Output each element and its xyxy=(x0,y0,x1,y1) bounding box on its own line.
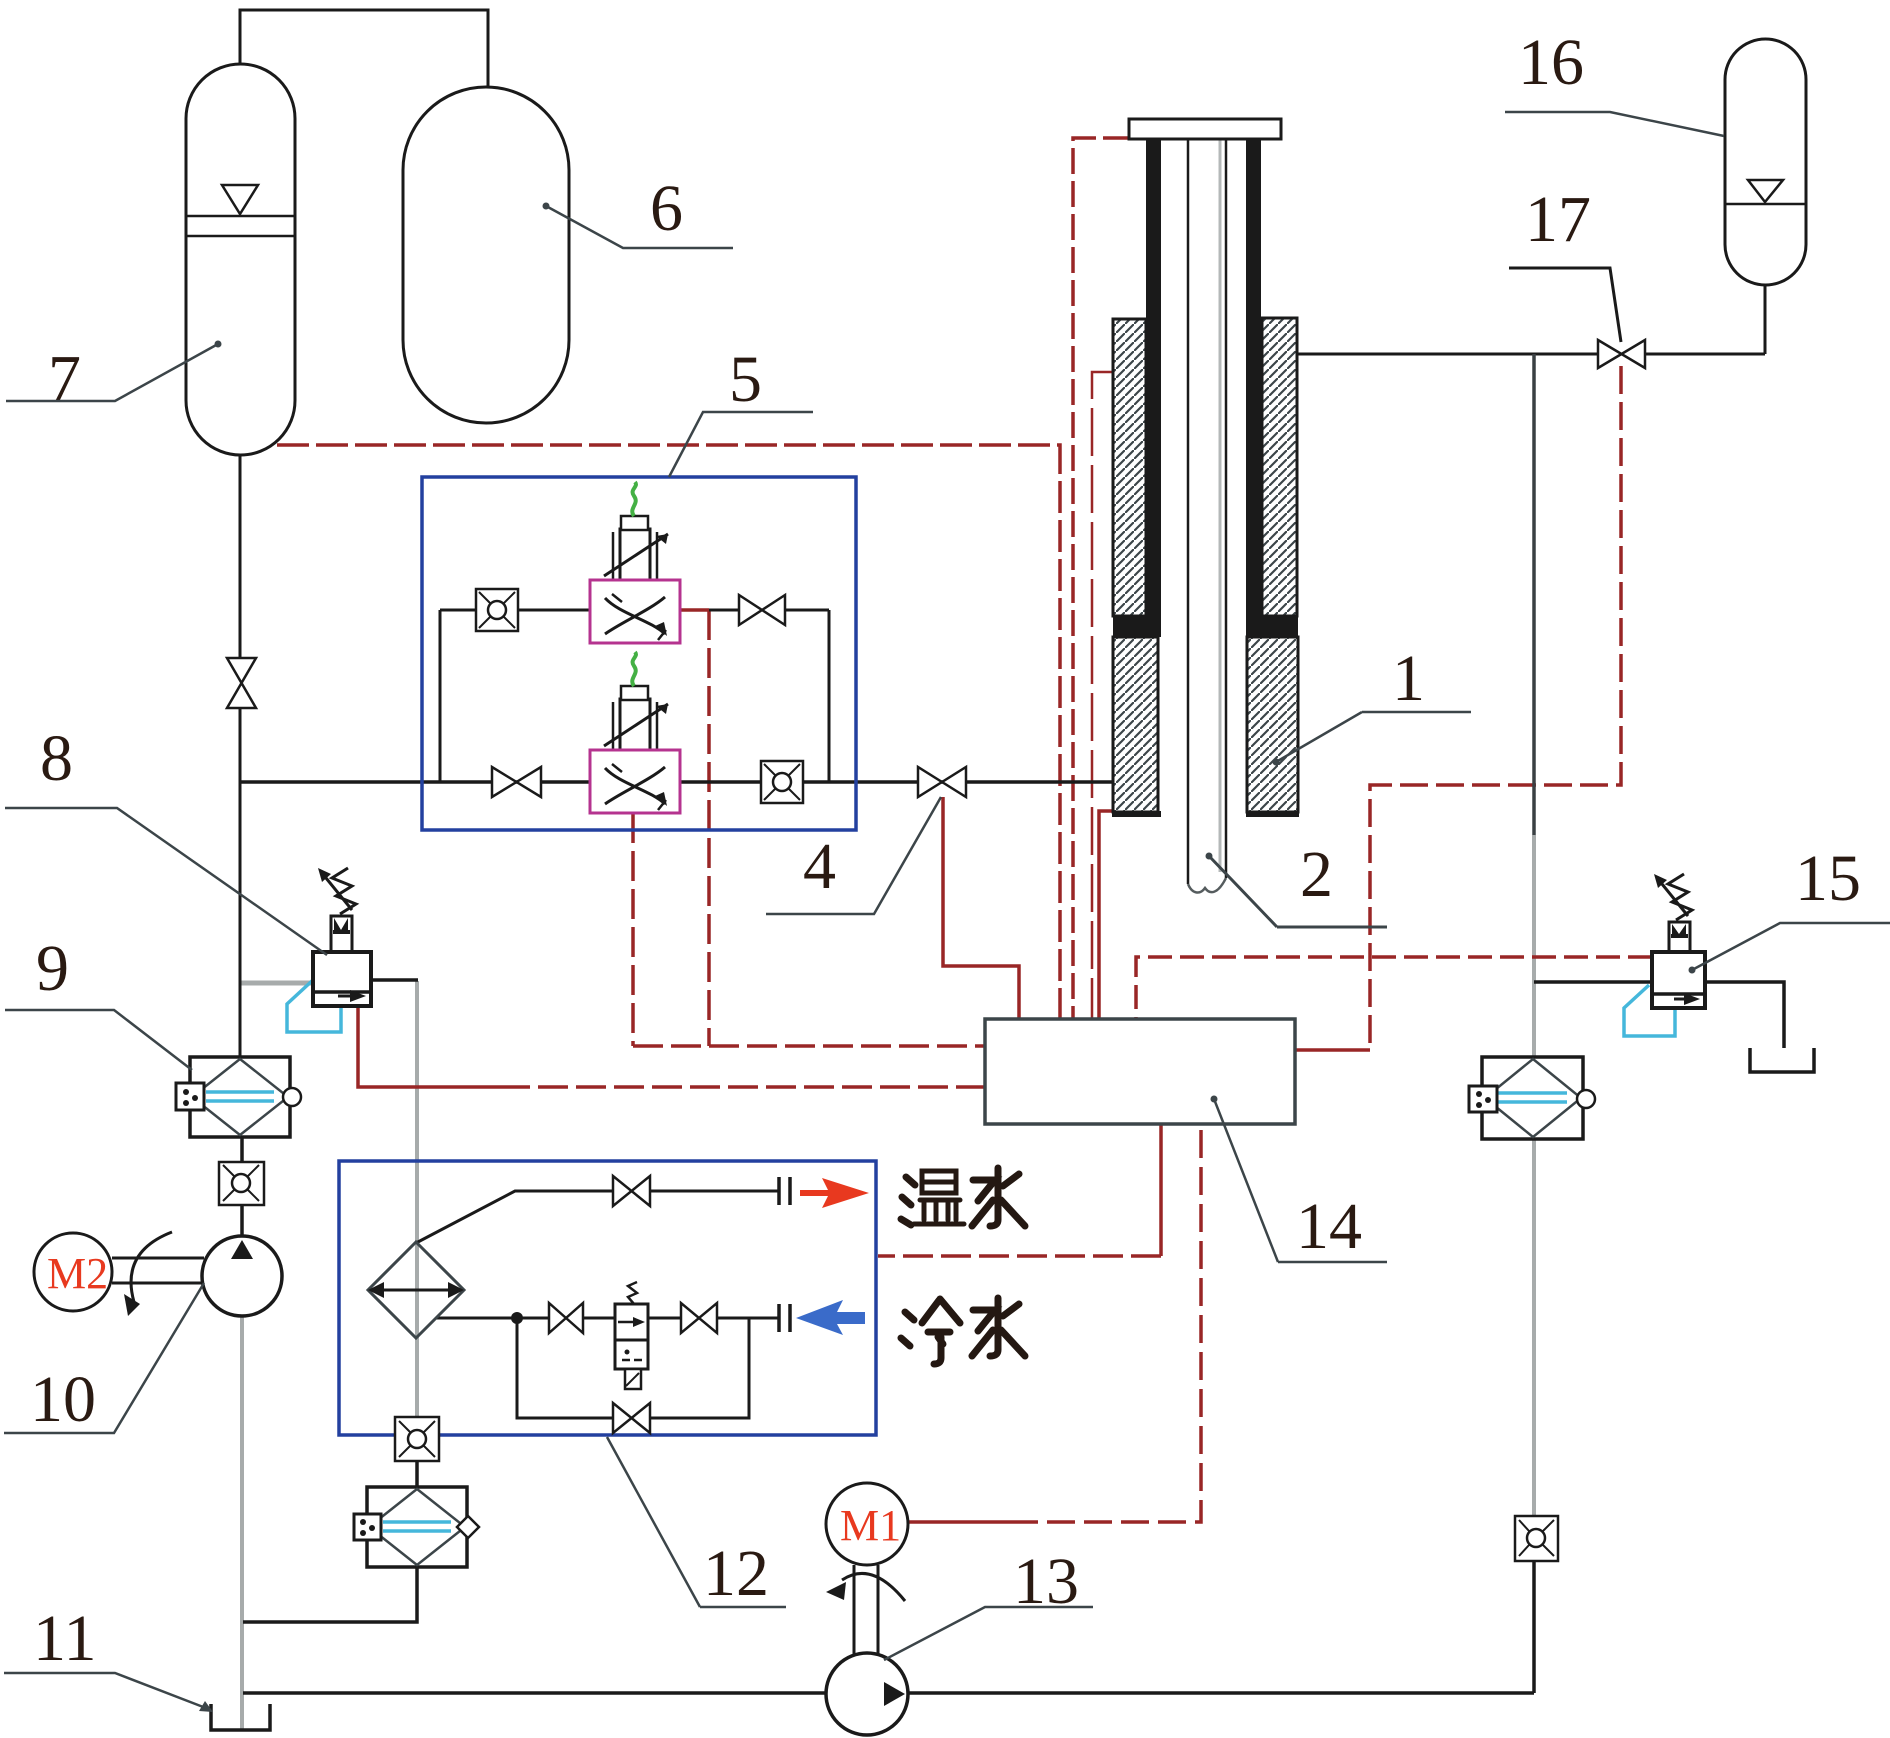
tank symbol right xyxy=(1750,1048,1814,1072)
label 10 xyxy=(4,1283,204,1436)
cylinder inner sleeve right xyxy=(1246,139,1261,618)
label 15 xyxy=(1689,842,1890,974)
wire temperature unit cold branch xyxy=(436,1317,779,1320)
label 13 xyxy=(884,1545,1093,1660)
accumulator 6 xyxy=(403,87,569,423)
wire label 17 leader xyxy=(1509,268,1621,342)
shutoff valve warm branch xyxy=(613,1176,650,1206)
cylinder lower wall right hatched xyxy=(1247,637,1298,812)
coupling warm water xyxy=(779,1177,790,1205)
wire shutoff valve 3 to main line xyxy=(239,708,242,782)
svg-text:12: 12 xyxy=(703,1537,769,1610)
check valve flow block bottom right xyxy=(761,761,803,803)
wire cylinder upper port to valve 17 and accumulator 16 xyxy=(1297,353,1765,356)
text cold water xyxy=(901,1298,1025,1364)
shutoff valve bypass xyxy=(613,1403,650,1433)
wire gray right return line xyxy=(1532,835,1536,1517)
label 1 xyxy=(1273,642,1472,766)
coupling cold water xyxy=(779,1304,790,1332)
rotation arrow M2 xyxy=(124,1232,172,1316)
filter 9 xyxy=(176,1057,301,1137)
wire gray rod centerline xyxy=(1219,139,1222,872)
cylinder bottom edge left xyxy=(1112,811,1161,817)
svg-text:5: 5 xyxy=(729,343,762,416)
motor M1 xyxy=(826,1483,908,1565)
shutoff valve below accumulator 7 xyxy=(227,658,256,708)
piston seal band right xyxy=(1246,616,1298,637)
svg-text:M1: M1 xyxy=(840,1501,901,1550)
check valve cooler chain xyxy=(395,1417,439,1461)
pilot line controller 14 to temperature unit 12 xyxy=(1159,1124,1163,1256)
check valve right return xyxy=(1515,1516,1558,1561)
cylinder bottom edge right xyxy=(1246,811,1299,817)
proportional flow valve B xyxy=(590,652,680,813)
label 2 xyxy=(1206,838,1388,927)
motor M2 xyxy=(34,1233,112,1311)
svg-text:11: 11 xyxy=(33,1602,97,1675)
accumulator 7 xyxy=(186,64,295,455)
piston rod 2 xyxy=(1188,139,1226,884)
wire cooler chain lower links xyxy=(243,1461,417,1622)
relief valve 15 xyxy=(1652,874,1705,1008)
wire flow block right riser xyxy=(828,610,831,782)
svg-text:15: 15 xyxy=(1795,842,1861,915)
frame temperature control unit 12 xyxy=(339,1161,876,1435)
wire main pressure line xyxy=(240,780,1112,784)
label 12 xyxy=(607,1437,786,1610)
wire left supply riser xyxy=(239,782,242,1057)
solenoid water valve xyxy=(615,1282,648,1389)
svg-text:8: 8 xyxy=(40,722,73,795)
svg-text:1: 1 xyxy=(1392,642,1425,715)
svg-text:6: 6 xyxy=(650,172,683,245)
svg-text:16: 16 xyxy=(1518,26,1584,99)
shutoff valve flow block lower left xyxy=(492,767,541,797)
cylinder inner sleeve left xyxy=(1146,139,1161,618)
label 16 xyxy=(1505,26,1724,136)
check valve above pump 10 xyxy=(219,1162,264,1205)
svg-text:7: 7 xyxy=(48,342,81,415)
pilot line cyan relief valve 15 xyxy=(1624,985,1675,1036)
proportional flow valve A xyxy=(590,482,680,643)
label 8 xyxy=(5,722,327,955)
cylinder 1 assembly xyxy=(1112,119,1299,893)
wire relief valve 8 outlet xyxy=(371,978,418,982)
wire gray pump10 suction to tank xyxy=(240,1316,244,1729)
check valve flow block top left xyxy=(476,589,518,631)
pilot line accumulator 7 to controller 14 xyxy=(277,445,1060,1019)
accumulator 16 xyxy=(1725,39,1806,285)
cylinder upper wall right hatched xyxy=(1262,318,1297,616)
pilot line to controller 14 left upper xyxy=(633,1044,985,1048)
arrow warm water out xyxy=(800,1178,869,1208)
svg-text:10: 10 xyxy=(30,1363,96,1436)
pilot line relief valve 8 to controller 14 xyxy=(358,1006,500,1087)
shutoff valve 4 xyxy=(918,767,966,797)
pilot line cyan relief valve 8 xyxy=(287,980,341,1032)
wire right riser top xyxy=(1532,354,1536,835)
cylinder lower wall left hatched xyxy=(1113,637,1158,812)
shutoff valve flow block top xyxy=(739,595,785,625)
shutoff valve cold branch left xyxy=(549,1303,583,1333)
svg-text:9: 9 xyxy=(36,932,69,1005)
pilot line valve 17 to controller 14 xyxy=(1370,366,1621,1050)
svg-text:2: 2 xyxy=(1300,838,1333,911)
wire accumulator 7 to accumulator 6 top link xyxy=(240,10,488,87)
wire right return to bottom line xyxy=(1532,1561,1536,1693)
wire temperature unit warm branch xyxy=(416,1191,779,1243)
svg-text:17: 17 xyxy=(1525,183,1591,256)
wire relief valve 15 outlet to tank xyxy=(1705,982,1784,1048)
wire temperature unit bypass xyxy=(517,1318,749,1418)
wire gray relief valve 8 drain down through cooler xyxy=(415,981,419,1417)
label 4 xyxy=(766,797,941,914)
svg-text:4: 4 xyxy=(803,830,836,903)
svg-text:14: 14 xyxy=(1296,1190,1362,1263)
svg-text:M2: M2 xyxy=(47,1249,108,1298)
label 7 xyxy=(6,341,222,416)
relief valve 8 xyxy=(313,868,371,1006)
wire flow block left branch riser xyxy=(439,610,442,782)
cylinder top cap xyxy=(1129,119,1281,139)
label 14 xyxy=(1211,1096,1388,1264)
pilot line cylinder upper port sensor to controller 14 xyxy=(1092,372,1113,1019)
label 5 xyxy=(669,343,813,477)
filter cooler chain xyxy=(354,1487,479,1567)
pilot line relief valve 15 to controller 14 xyxy=(1136,957,1652,1019)
text warm water xyxy=(901,1168,1025,1226)
wire filter 9 to check valve to pump 10 xyxy=(240,1137,244,1237)
filter right return xyxy=(1469,1057,1595,1139)
arrow cold water in xyxy=(796,1300,865,1335)
pilot line cylinder cap sensor to controller 14 xyxy=(1073,138,1129,1019)
wire bottom return line xyxy=(243,1691,1534,1695)
wire red cylinder bottom sensor to controller 14 xyxy=(1099,811,1112,1019)
pilot line proportional valve B to controller 14 xyxy=(631,813,635,1046)
frame flow control block 5 xyxy=(422,477,856,830)
pilot line proportional valve A to controller 14 xyxy=(680,608,709,612)
wire flow block top branch xyxy=(440,609,590,612)
heat exchanger xyxy=(368,1242,464,1338)
wire motor M1 shaft xyxy=(854,1565,878,1655)
label 11 xyxy=(4,1602,213,1712)
wire red valve 4 to controller 14 xyxy=(943,797,1019,1019)
cylinder upper wall left hatched xyxy=(1113,319,1146,616)
shutoff valve cold branch right xyxy=(681,1303,717,1333)
controller box 14 xyxy=(985,1019,1295,1124)
wire red motor M1 to controller 14 xyxy=(908,1520,1010,1524)
wire accumulator 7 outlet xyxy=(239,455,242,658)
piston seal band left xyxy=(1113,616,1161,637)
wire gray relief valve 8 inlet xyxy=(240,981,313,986)
shutoff valve 17 xyxy=(1598,340,1645,368)
pump 13 xyxy=(826,1653,908,1735)
rotation arrow M1 xyxy=(826,1573,905,1601)
label 6 xyxy=(543,172,734,248)
label 9 xyxy=(5,932,192,1070)
wire motor M2 shaft xyxy=(112,1258,204,1283)
wire relief valve 15 inlet xyxy=(1534,980,1652,984)
junction cold branch xyxy=(511,1312,523,1324)
pump 10 xyxy=(202,1236,282,1316)
tank symbol 11 xyxy=(211,1704,270,1730)
